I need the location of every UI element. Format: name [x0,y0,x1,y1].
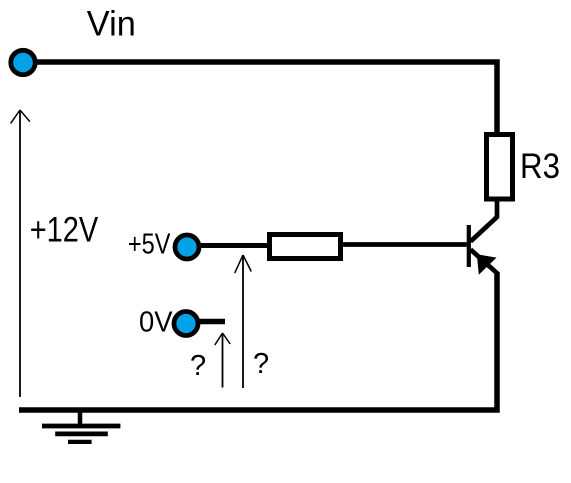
wire: 0V stub [198,319,225,325]
arrow: +12V supply annotation [11,110,30,397]
resistor R3 [487,135,513,200]
ground symbol [42,411,120,442]
transistor Q1 base bar [467,225,471,267]
wire: bottom ground rail from left end up right side to emitter [19,272,497,410]
arrow: short annotation arrow near 0V [215,333,230,388]
svg-text:+12V: +12V [30,209,99,249]
transistor Q1 emitter lead [471,250,499,275]
wire: base lead from resistor to transistor [340,242,467,247]
wire: Vin top rail from node to right corner, down to R3 [23,62,497,134]
transistor Q1 emitter arrowhead (PNP, pointing to base) [477,254,497,275]
wire: from +5V node to base resistor [187,243,272,248]
svg-text:0V: 0V [139,306,173,338]
arrow: long annotation arrow to +5V wire [235,255,252,388]
terminal node Vin [11,50,35,74]
terminal node 0V [174,312,198,336]
wire: collector lead from R3 to transistor [471,201,498,242]
svg-text:?: ? [190,350,206,382]
svg-text:+5V: +5V [128,229,170,261]
svg-text:?: ? [253,348,269,380]
resistor R2 (base resistor) [270,235,341,259]
svg-text:R3: R3 [520,147,560,186]
terminal node +5V [175,235,199,259]
svg-text:Vin: Vin [87,4,136,44]
